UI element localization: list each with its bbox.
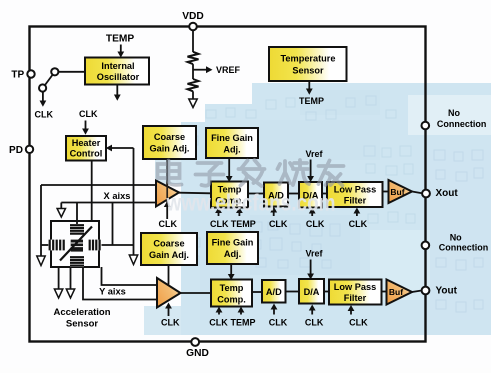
outer package box bbox=[30, 27, 426, 342]
wire temp comp Y TEMP bbox=[240, 312, 242, 315]
svg-text:CLK: CLK bbox=[209, 318, 228, 328]
wire temp comp Y CLK bbox=[218, 312, 220, 315]
svg-text:Temp: Temp bbox=[220, 283, 244, 293]
wire temp comp X TEMP bbox=[238, 213, 240, 217]
wire lpf to buf Y bbox=[382, 291, 387, 293]
svg-text:CLK: CLK bbox=[269, 318, 288, 328]
box Coarse Gain Adj lower bbox=[141, 233, 197, 265]
node No Connection 2 bbox=[422, 242, 430, 250]
wire tc to ad Y bbox=[252, 291, 262, 293]
svg-text:TEMP: TEMP bbox=[299, 96, 324, 106]
watermark bbox=[158, 160, 344, 186]
svg-text:Filter: Filter bbox=[344, 196, 367, 206]
svg-text:Adj.: Adj. bbox=[224, 249, 241, 259]
svg-text:CLK: CLK bbox=[305, 318, 324, 328]
wire rail stub arrow bbox=[60, 203, 62, 209]
wire rail to top coil bbox=[76, 203, 78, 225]
svg-text:Sensor: Sensor bbox=[66, 319, 99, 330]
node GND bbox=[191, 338, 199, 346]
svg-text:CLK: CLK bbox=[159, 219, 178, 229]
box A/D X bbox=[264, 183, 288, 207]
svg-text:TEMP: TEMP bbox=[231, 219, 256, 229]
wire left coil line bbox=[41, 244, 51, 246]
open arrow left drop bbox=[37, 256, 45, 266]
sensor frame bbox=[51, 221, 99, 267]
box A/D Y bbox=[262, 280, 286, 303]
box Fine Gain Adj upper bbox=[206, 128, 258, 158]
svg-text:Xout: Xout bbox=[436, 188, 459, 199]
wire sensor to Y rail bbox=[83, 267, 157, 300]
wire feedback vertical bbox=[133, 148, 135, 255]
svg-text:Connection: Connection bbox=[437, 119, 487, 129]
wire sensor bottom left bbox=[58, 267, 60, 289]
wire ad to da Y bbox=[286, 291, 300, 293]
svg-text:Low Pass: Low Pass bbox=[334, 185, 376, 195]
oscillator U1 Internal Oscillator bbox=[85, 58, 149, 85]
wire ad to da X bbox=[288, 193, 299, 195]
wire vref to da X bbox=[310, 160, 312, 177]
wire CLK to heater bbox=[85, 121, 87, 130]
node No Connection 1 bbox=[422, 122, 430, 130]
buffer X bbox=[389, 180, 413, 203]
wire ad X CLK bbox=[273, 212, 275, 216]
svg-text:Connection: Connection bbox=[439, 243, 489, 253]
wire lpf X CLK bbox=[356, 213, 358, 216]
wire coarse to Y amp bbox=[168, 265, 170, 285]
wire da to lpf X bbox=[322, 193, 327, 195]
svg-text:D/A: D/A bbox=[304, 287, 320, 297]
wire vref to da Y bbox=[310, 260, 312, 275]
svg-text:TP: TP bbox=[11, 70, 24, 81]
box D/A Y bbox=[299, 279, 324, 304]
wire X amp out bbox=[179, 192, 211, 195]
svg-text:Vref: Vref bbox=[305, 149, 323, 159]
svg-text:Coarse: Coarse bbox=[153, 239, 184, 249]
wire left drop bbox=[40, 185, 42, 256]
svg-text:GND: GND bbox=[186, 348, 209, 359]
wire sensor to Y upper bbox=[102, 267, 158, 285]
wire gain line through op-amp X bbox=[166, 181, 168, 206]
svg-text:Temperature: Temperature bbox=[281, 54, 336, 64]
wire TEMP to oscillator bbox=[120, 45, 122, 53]
op-amp X bbox=[156, 181, 179, 207]
svg-text:VREF: VREF bbox=[216, 65, 241, 75]
box Coarse Gain Adj upper bbox=[143, 126, 196, 159]
svg-text:CLK: CLK bbox=[161, 318, 180, 328]
wire heater drive bbox=[91, 161, 93, 222]
wire R1 to R2 bbox=[192, 64, 194, 79]
heater control U2 bbox=[66, 136, 106, 161]
svg-text:Control: Control bbox=[70, 148, 103, 158]
svg-text:Heater: Heater bbox=[72, 138, 101, 148]
wire sensor bottom mid bbox=[70, 267, 72, 289]
wire heater feedback bbox=[111, 147, 134, 149]
wire da Y CLK bbox=[311, 310, 313, 315]
svg-text:CLK: CLK bbox=[269, 219, 288, 229]
wire temp comp X CLK bbox=[218, 213, 220, 217]
open arrow down bbox=[189, 99, 197, 108]
svg-text:Internal: Internal bbox=[101, 61, 134, 71]
wire ad Y CLK bbox=[273, 309, 275, 315]
coil right bbox=[89, 240, 102, 251]
svg-text:Buf: Buf bbox=[390, 187, 404, 197]
wire fine to temp comp X bbox=[228, 158, 230, 177]
box Temp Comp X bbox=[211, 182, 248, 208]
svg-text:A/D: A/D bbox=[266, 287, 282, 297]
box Temp Comp Y bbox=[211, 280, 252, 307]
svg-text:Gain Adj.: Gain Adj. bbox=[149, 250, 189, 260]
wire X upper input bbox=[41, 184, 157, 186]
svg-text:Acceleration: Acceleration bbox=[53, 307, 110, 318]
wire da X CLK bbox=[311, 213, 313, 216]
op-amp Y bbox=[157, 278, 181, 308]
wire right coil line bbox=[99, 244, 134, 246]
filter Low Pass Y bbox=[329, 280, 382, 305]
coil left bbox=[48, 240, 65, 251]
node PD bbox=[26, 146, 33, 153]
wire oscillator output bbox=[116, 85, 118, 96]
buffer Y bbox=[387, 280, 413, 305]
wire lpf Y CLK bbox=[350, 311, 352, 315]
svg-text:CLK: CLK bbox=[79, 109, 98, 119]
wire temp sensor out bbox=[308, 81, 310, 89]
box D/A X bbox=[299, 182, 322, 208]
wire coarse to X amp bbox=[166, 159, 168, 188]
box Fine Gain Adj lower bbox=[207, 232, 258, 264]
resistor R2 bbox=[188, 79, 199, 91]
wire VDD to R1 bbox=[192, 30, 194, 52]
svg-text:Yout: Yout bbox=[436, 285, 458, 296]
svg-text:Vref: Vref bbox=[305, 249, 323, 259]
switch S1 bbox=[39, 68, 58, 91]
svg-text:Y aixs: Y aixs bbox=[99, 287, 126, 297]
wire switch to oscillator bbox=[58, 71, 85, 73]
proof mass center bbox=[71, 240, 83, 252]
svg-text:Sensor: Sensor bbox=[292, 66, 324, 76]
node TP bbox=[27, 70, 34, 77]
wire Y amp CLK bbox=[168, 308, 170, 316]
svg-text:Adj.: Adj. bbox=[223, 145, 240, 155]
wire switch to CLK bbox=[42, 92, 44, 101]
wire buf to Xout bbox=[412, 192, 422, 194]
svg-text:VDD: VDD bbox=[182, 11, 204, 22]
svg-text:Fine Gain: Fine Gain bbox=[212, 238, 254, 248]
wire rail right drop bbox=[112, 203, 114, 246]
wire buf to Yout bbox=[412, 291, 422, 293]
wire VREF tap bbox=[193, 69, 206, 71]
svg-text:CLK: CLK bbox=[210, 219, 229, 229]
svg-text:Coarse: Coarse bbox=[154, 132, 185, 142]
svg-text:X aixs: X aixs bbox=[104, 191, 131, 201]
svg-text:CLK: CLK bbox=[35, 110, 54, 120]
wire fine to temp comp Y bbox=[230, 264, 232, 275]
filter Low Pass X bbox=[327, 182, 383, 207]
svg-text:Gain Adj.: Gain Adj. bbox=[150, 144, 190, 154]
switch arm sensor bbox=[60, 227, 92, 261]
wire X amp CLK bbox=[166, 207, 168, 220]
svg-text:Oscillator: Oscillator bbox=[97, 72, 140, 82]
wire da to lpf Y bbox=[324, 291, 329, 293]
svg-text:TEMP: TEMP bbox=[106, 34, 135, 45]
svg-text:No: No bbox=[450, 232, 462, 242]
node VDD bbox=[189, 23, 197, 31]
svg-text:Buf: Buf bbox=[389, 287, 403, 297]
sensor U3 Temperature Sensor bbox=[269, 47, 347, 81]
wire lpf to buf X bbox=[383, 191, 389, 193]
svg-text:CLK: CLK bbox=[349, 318, 368, 328]
node Yout bbox=[422, 287, 430, 295]
resistor R1 bbox=[188, 52, 199, 64]
svg-text:www.elecfans.com: www.elecfans.com bbox=[166, 191, 336, 216]
wire R2 down bbox=[192, 91, 194, 99]
wire tc to ad X bbox=[248, 193, 264, 195]
svg-text:PD: PD bbox=[9, 145, 23, 156]
svg-text:Fine Gain: Fine Gain bbox=[211, 133, 253, 143]
coil top bbox=[70, 224, 84, 235]
node Xout bbox=[422, 190, 430, 198]
open arrow feedback bbox=[129, 255, 137, 265]
svg-text:Comp.: Comp. bbox=[217, 295, 246, 305]
wire X axis rail bbox=[61, 202, 156, 204]
coil bottom bbox=[70, 256, 84, 267]
svg-text:CLK: CLK bbox=[349, 219, 368, 229]
svg-text:Filter: Filter bbox=[344, 293, 367, 303]
svg-text:TEMP: TEMP bbox=[230, 318, 255, 328]
wire Y amp out bbox=[181, 292, 212, 294]
svg-text:Low Pass: Low Pass bbox=[334, 282, 376, 292]
svg-text:No: No bbox=[448, 108, 460, 118]
svg-text:CLK: CLK bbox=[306, 219, 325, 229]
